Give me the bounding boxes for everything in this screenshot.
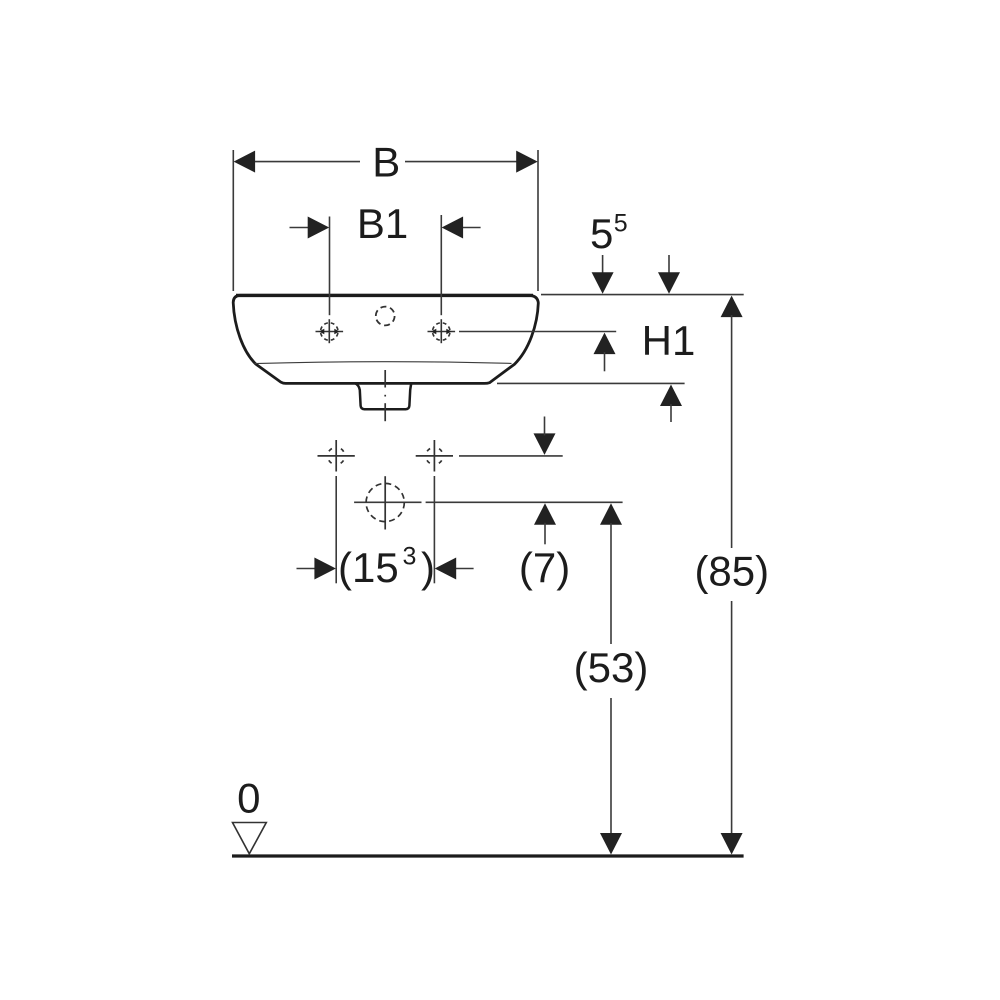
svg-text:3: 3 xyxy=(403,543,417,571)
extension line left xyxy=(232,150,234,291)
dimension (85) xyxy=(721,296,743,318)
wall hole arrow tail xyxy=(544,417,546,436)
basin inner rim line xyxy=(255,362,512,364)
drain outlet xyxy=(355,383,412,409)
svg-text:B: B xyxy=(372,139,400,186)
right tap hole ticks xyxy=(431,329,437,334)
drain axis reference line xyxy=(354,501,622,503)
arrow B left xyxy=(234,151,256,173)
dimension (15-3) xyxy=(297,476,474,583)
drain centerline xyxy=(384,370,386,421)
right tap hole xyxy=(428,319,456,343)
wall hole reference line xyxy=(459,455,563,457)
left wall hole xyxy=(318,440,355,472)
(53) down arrow xyxy=(600,833,622,855)
wall hole down arrow xyxy=(534,433,556,455)
(85) down arrow xyxy=(721,833,743,855)
H1 arrow tail xyxy=(604,352,606,371)
(53) line upper xyxy=(610,523,612,644)
dimension B xyxy=(233,150,538,291)
extension line right xyxy=(433,476,435,583)
basin top rim thick line xyxy=(236,294,533,297)
top reference line xyxy=(541,294,744,296)
left tap hole xyxy=(316,319,344,343)
basin outline xyxy=(233,295,538,383)
arrow B right xyxy=(516,151,538,173)
drain hole xyxy=(366,476,404,529)
arrow (15-3) left xyxy=(314,558,336,580)
dimension 7 up arrow xyxy=(534,503,556,525)
svg-text:5: 5 xyxy=(590,210,613,257)
dimension B1 xyxy=(290,215,481,315)
overflow hole xyxy=(376,307,395,326)
zero marker triangle xyxy=(233,823,267,854)
dimension (53) xyxy=(600,503,622,525)
tail right xyxy=(455,568,473,570)
svg-text:B1: B1 xyxy=(357,200,408,247)
svg-text:): ) xyxy=(421,544,435,591)
svg-text:(15: (15 xyxy=(338,544,399,591)
extension line left xyxy=(329,217,331,316)
svg-text:H1: H1 xyxy=(642,317,696,364)
basin bottom reference line xyxy=(497,382,685,384)
tail arrow a xyxy=(602,255,604,274)
dim line left segment xyxy=(254,161,360,163)
dimension 7 arrow tail xyxy=(544,523,546,545)
extension line left xyxy=(335,476,337,583)
H1 reference line (tap hole axis) xyxy=(459,331,616,333)
tail left xyxy=(290,227,310,229)
dimension 5-5 xyxy=(603,255,669,274)
basin bottom up arrow xyxy=(660,385,682,407)
arrow 5-5 down a xyxy=(592,272,614,294)
svg-text:(7): (7) xyxy=(519,544,570,591)
tail left xyxy=(297,568,316,570)
arrow (15-3) right xyxy=(435,558,457,580)
dim line right segment xyxy=(405,161,517,163)
extension line right xyxy=(440,215,442,315)
arrow 5-5 down b (H1 top) xyxy=(658,272,680,294)
arrow B1 right xyxy=(442,217,464,239)
H1 up arrow xyxy=(594,333,616,355)
svg-text:(85): (85) xyxy=(694,548,769,595)
floor line xyxy=(232,854,744,857)
svg-text:0: 0 xyxy=(237,775,260,822)
basin bottom arrow tail xyxy=(670,404,672,422)
svg-text:5: 5 xyxy=(614,210,628,238)
(85) line lower xyxy=(731,601,733,834)
extension line right xyxy=(537,150,539,291)
tail arrow b xyxy=(668,255,670,274)
tail right xyxy=(462,227,481,229)
(53) line lower xyxy=(610,698,612,834)
left tap hole ticks xyxy=(319,329,325,334)
right wall hole xyxy=(416,440,453,472)
(85) line upper xyxy=(731,315,733,548)
svg-text:(53): (53) xyxy=(574,644,649,691)
arrow B1 left xyxy=(308,217,330,239)
